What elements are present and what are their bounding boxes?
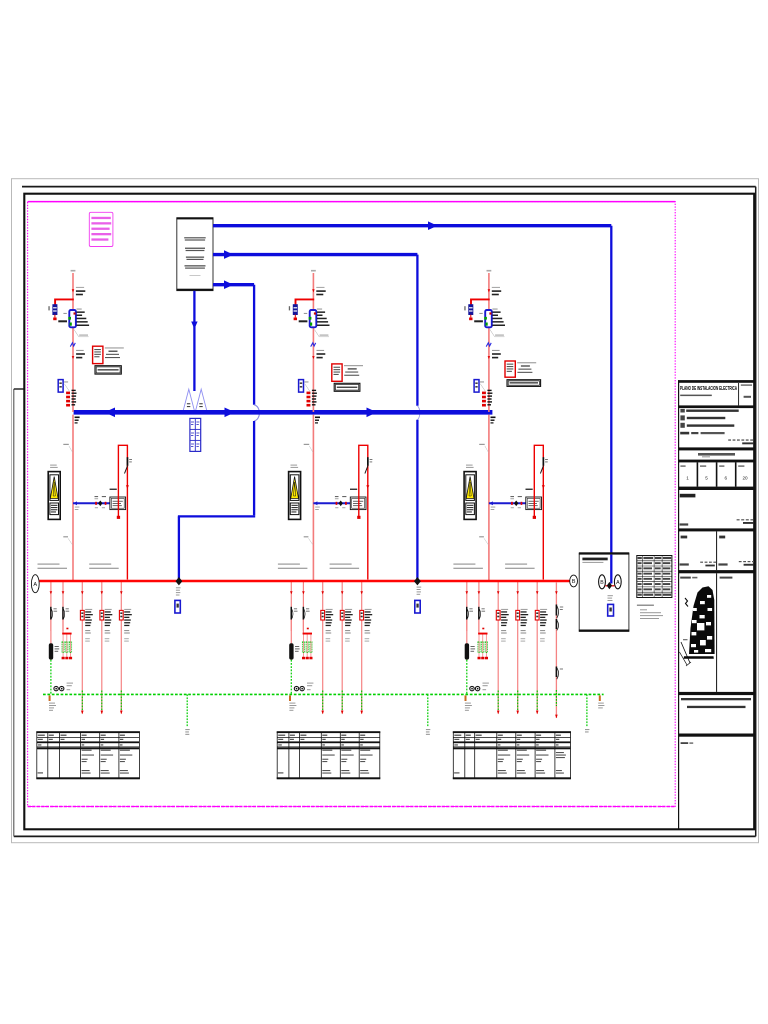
wire: blue feeder line 2 (213, 253, 417, 256)
wire: blue vertical to red bus (178, 516, 180, 578)
title block left border (678, 380, 680, 829)
tie switch (607, 582, 612, 589)
bus arrow right (367, 408, 378, 418)
svg-text:1: 1 (686, 476, 689, 481)
section 9: lamina (681, 742, 689, 744)
box text lines (184, 237, 206, 276)
sheet black frame A bottom (14, 835, 756, 837)
sheet outer gray frame (12, 179, 759, 843)
magenta note box top-left (89, 212, 113, 246)
site map black blob (689, 586, 715, 654)
lightning arrester triangle 2 (195, 389, 207, 412)
earth drop between groups 2-3 (427, 694, 429, 726)
bus arrow mid (225, 408, 236, 418)
earth electrode right orange tick (599, 695, 601, 701)
main MT blue bus (74, 410, 493, 415)
section 4: revision cells (696, 462, 698, 486)
transformer T3 data box (505, 361, 541, 386)
earth drop between groups 1-2 (186, 694, 188, 726)
wire: blue vertical drop from line 1 (610, 226, 612, 585)
sheet black frame A top (22, 186, 756, 188)
node A circle in box (614, 575, 621, 589)
substation group 2 (278, 415, 373, 715)
load table group 2 (277, 731, 381, 779)
hop over main bus on line-3 drop (254, 405, 259, 421)
wire: blue vertical from cells box bottom (193, 291, 195, 391)
svg-text:20: 20 (742, 476, 748, 481)
marks inside triangles (187, 403, 190, 404)
svg-text:A: A (33, 582, 37, 588)
wire: blue feeder line 3 (213, 283, 254, 286)
circuit SE-2 (289, 270, 330, 424)
svg-text:6: 6 (725, 476, 728, 481)
LV distribution red bus (39, 580, 570, 582)
node B circle in box (599, 575, 606, 589)
wire: blue feeder line 1 (top) (213, 224, 611, 227)
section 8: nota (681, 698, 751, 700)
horizontal thick dividers (678, 380, 754, 383)
magenta dashed drawing border (28, 202, 676, 807)
wire: blue vertical drop from line 2 (upper part) (416, 255, 418, 406)
tie breaker box ENLACE (579, 552, 629, 632)
meter box below junction x178 (175, 600, 180, 613)
wire: blue horizontal jog (178, 515, 255, 517)
section 3: plan name (698, 453, 735, 456)
MT cells box (celdas de salida) (177, 218, 213, 291)
fold tick (14, 388, 24, 390)
earth green bus (43, 693, 604, 695)
sheet inner black frame B (24, 194, 754, 830)
svg-text:B: B (600, 580, 604, 586)
load table group 1 (36, 731, 140, 779)
arrow on box drop (191, 322, 197, 330)
section 5: nombre (680, 494, 696, 498)
sheet black frame A right (755, 187, 757, 837)
wire: blue tie feeder inside box (610, 555, 612, 584)
meter box below junction x417 (415, 600, 420, 613)
section 6: proy/dib cells (716, 531, 718, 570)
transformer T2 data box (332, 364, 363, 391)
bus arrow left (105, 408, 116, 418)
section 2: obra data (680, 409, 684, 413)
magenta border bottom edge (28, 806, 676, 808)
node B circle right (570, 575, 578, 587)
tie labels (608, 595, 613, 596)
svg-text:5: 5 (705, 476, 708, 481)
load table group 3 (453, 731, 571, 779)
magenta note text lines (91, 217, 111, 241)
hop over main bus (417, 406, 419, 420)
svg-text:A: A (616, 580, 620, 586)
substation group 3 (453, 415, 548, 715)
junction blue drop at x178 (176, 577, 183, 585)
wire: blue vertical drop from line 2 (lower part) (416, 420, 418, 580)
junction blue drop at x417 (414, 577, 421, 585)
substation group 1 (38, 415, 133, 715)
arrow on line 3 (224, 280, 234, 289)
svg-text:B: B (572, 579, 576, 585)
arrow on line 2 (224, 250, 234, 259)
wire: blue vertical from line 3 (253, 285, 255, 405)
arrow on line 1 (428, 221, 438, 230)
legend grid below triangles (190, 418, 201, 451)
magenta border top edge (28, 201, 676, 203)
lightning arrester triangle 1 (183, 389, 195, 412)
tie meter box (608, 604, 614, 616)
tie red link (605, 585, 614, 587)
title block (678, 380, 754, 829)
sheet frame A left lower segment (fold mark) (13, 389, 15, 836)
circuit SE-1 (48, 270, 89, 424)
map street lines (681, 642, 690, 663)
earth drop right (586, 694, 588, 726)
node A circle left (31, 575, 39, 593)
map small figure (685, 598, 688, 607)
notes under mini table (637, 605, 654, 606)
svg-text:PLANO DE INSTALACION ELECTRICA: PLANO DE INSTALACION ELECTRICA (680, 386, 737, 392)
load summary mini table (637, 556, 672, 620)
feeder F drop (group 3 extra) (555, 582, 563, 718)
transformer T1 data box (93, 346, 124, 374)
section 7: site map / croquis (716, 573, 718, 692)
circuit SE-3 (464, 270, 505, 424)
